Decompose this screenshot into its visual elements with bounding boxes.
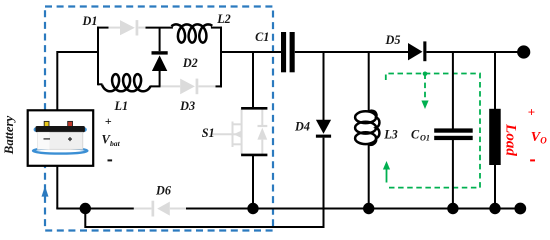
svg-text:O1: O1 [420,134,430,143]
svg-text:Load: Load [502,123,518,156]
svg-text:D6: D6 [155,183,172,197]
svg-text:C: C [411,127,420,141]
svg-text:O: O [540,135,547,145]
svg-text:D4: D4 [294,120,310,134]
svg-text:L1: L1 [114,99,129,113]
svg-text:D5: D5 [385,33,401,47]
svg-text:bat: bat [110,139,121,148]
svg-text:Battery: Battery [2,115,16,155]
svg-text:D1: D1 [82,14,98,28]
svg-text:D2: D2 [182,56,198,70]
svg-text:L3: L3 [383,127,398,141]
svg-text:L2: L2 [216,12,231,26]
svg-text:S1: S1 [202,126,215,140]
svg-text:C1: C1 [255,30,269,44]
svg-text:+: + [105,114,112,128]
svg-text:D3: D3 [179,99,195,113]
svg-text:+: + [528,104,535,119]
